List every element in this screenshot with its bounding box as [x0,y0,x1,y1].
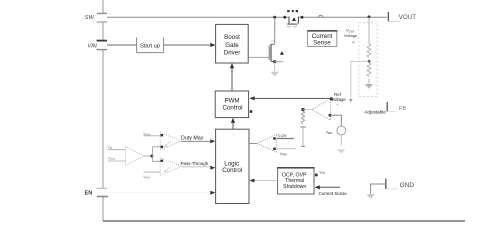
svg-text:VREF: VREF [326,130,334,135]
resistor R2 [367,63,371,77]
node: M1 source junction [273,60,276,63]
resistor R1 [367,44,371,58]
node: PFET drain junction [301,16,304,19]
wire: bottom boundary line [103,220,465,222]
svg-text:Control: Control [223,104,243,111]
svg-text:Control: Control [222,167,242,174]
wire: Logic Control to PWM [232,120,234,129]
wire: source to ground [340,135,342,145]
svg-text:FB: FB [399,106,406,112]
svg-text:Adjustable: Adjustable [364,109,386,114]
source: reference voltage source [337,126,346,135]
wire: divider tap to error amp input [351,61,369,98]
node: PFET source junction [283,16,286,19]
node: compensation node [302,108,305,111]
wire: gate drive to M1 [248,56,269,58]
ground (reference ground arrow) [337,149,345,154]
amplifier: Pass-Through ramp comparator [143,158,182,180]
ground (analog ground arrow) [366,194,375,199]
resistor Rc (compensation) [301,111,304,124]
svg-text:Pass-Through: Pass-Through [181,161,209,166]
wire: left IC boundary vertical line [102,0,104,221]
wire: M1 source to ground [274,62,276,72]
svg-text:VOUT: VOUT [108,156,116,161]
wire: SW rail to VOUT [107,16,289,18]
wire: error amp minus input to reference source [330,115,341,126]
op-amp: error amplifier [312,97,339,120]
svg-text:Driver: Driver [224,50,241,57]
svg-text:Voltage: Voltage [331,97,346,102]
svg-text:Shutdown: Shutdown [283,184,306,190]
pin SW [85,13,109,23]
pin EN [85,188,109,197]
wire: error amp output to PWM [252,97,331,99]
wire: current sense into OCP [317,186,341,188]
svg-text:N: N [272,39,274,43]
block: PWM Control [215,91,248,118]
wire: comp node to error amp apex [303,109,312,111]
svg-text:Voltage: Voltage [344,33,358,38]
svg-text:EN: EN [85,191,93,197]
wire: Pass-Through output to Logic [182,166,212,168]
wire: comparator output to PWM ramp amps [153,147,160,162]
wire: Start up to Boost Gate Driver [164,44,214,46]
svg-text:VMIN: VMIN [143,175,150,180]
svg-text:VIN: VIN [319,169,325,175]
wire: OCP block to Logic Control [252,180,278,182]
ground (power ground arrow) [270,72,279,76]
svg-text:VOUT: VOUT [399,14,416,21]
wire: VIN to Start up [107,44,137,46]
block: Logic Control [216,129,249,203]
svg-text:+: + [337,103,339,107]
svg-text:Gate: Gate [225,42,239,49]
pin GND [386,179,414,189]
capacitor Cc (compensation) [300,126,306,128]
svg-text:Current Sense: Current Sense [319,191,348,196]
block: Boost Gate Driver [216,24,249,63]
svg-text:SW: SW [85,15,95,21]
svg-text:0.2V: 0.2V [278,133,286,138]
svg-text:Boost: Boost [224,34,240,41]
block: Current Sense (top) [307,31,337,47]
node: PWM aux input dot [250,110,253,113]
block: OCP OVP Thermal Shutdown [277,168,314,194]
svg-text:GND: GND [400,182,415,189]
wire: EN to Logic Control [108,192,211,194]
pin VIN [88,41,109,50]
wire hop on rail [318,15,323,17]
comparator: 0.2V comparator [249,133,296,156]
resistor divider (dashed adjustable feedback network) [359,17,377,97]
svg-text:Sense: Sense [313,40,331,47]
svg-text:VIN: VIN [88,44,98,50]
block: Start up [137,37,164,52]
svg-text:VIN: VIN [108,145,113,150]
comparator: Vin/Vout comparator [108,145,154,166]
svg-text:Start up: Start up [140,44,160,50]
svg-text:VREF: VREF [280,152,288,157]
wire: Duty Max output to Logic [181,140,213,142]
node: feedback divider tap on rail [368,15,371,18]
pin FB [387,102,406,112]
wire: GND pin to ground arrow [371,184,386,194]
pin VOUT [388,12,416,21]
wire: PWM to Boost Gate Driver [231,66,233,92]
svg-text:R: R [353,40,356,44]
node: M1 drain junction [273,16,276,19]
amplifier: Duty Max ramp comparator [143,132,181,150]
svg-text:Duty Max: Duty Max [181,135,204,141]
transistor M1 (power NMOS) [269,17,284,61]
wire: M1 source sense stub [275,61,284,63]
node: Vin bullet at OCP [315,174,318,177]
transistor M2 (PMOS isolation switch) [287,10,299,27]
